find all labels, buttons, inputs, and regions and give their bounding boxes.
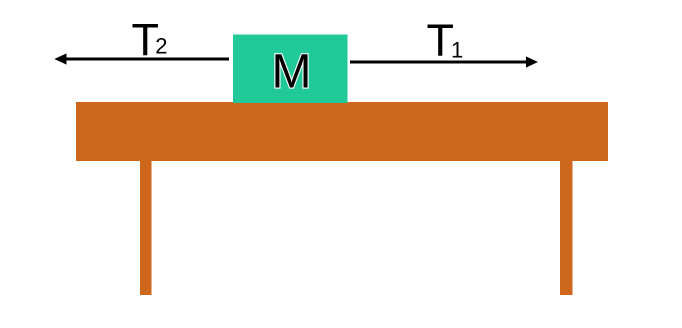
wire tension arrow T1 (right): [350, 56, 538, 67]
table top: [76, 102, 608, 161]
table left leg: [140, 161, 152, 295]
svg-text:1: 1: [451, 38, 463, 63]
block M: [233, 35, 348, 104]
svg-text:T: T: [427, 15, 455, 66]
table right leg: [560, 161, 573, 295]
wire tension arrow T2 (left): [54, 53, 229, 64]
svg-text:M: M: [272, 46, 312, 99]
svg-text:2: 2: [155, 34, 167, 59]
